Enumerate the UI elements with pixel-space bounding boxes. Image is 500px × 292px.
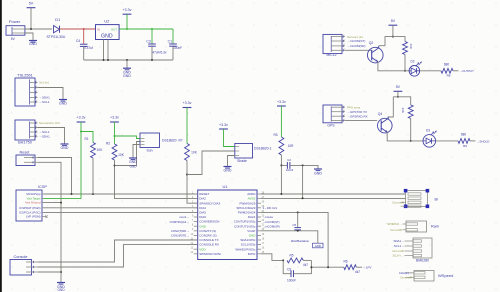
wire U1 bottom pin to R5 bbox=[261, 254, 283, 261]
wire C4 top stem (red) bbox=[83, 29, 85, 44]
wire C1 bottom bbox=[172, 46, 174, 60]
pin 4 TSL2561 bbox=[30, 97, 38, 99]
connector BME280 bbox=[413, 238, 432, 258]
junction rail d bbox=[151, 59, 153, 61]
junction R5C9 out bbox=[310, 266, 312, 268]
svg-text:Power: Power bbox=[9, 19, 21, 24]
pin 4 GPS bbox=[331, 120, 345, 122]
svg-text:MCLR/Vpp: MCLR/Vpp bbox=[26, 192, 41, 196]
pin right 20 U1 VCAP bbox=[257, 230, 261, 232]
junction 3.3v flag bbox=[126, 28, 128, 30]
pin right 24 U1 PWM2/GA24 bbox=[257, 211, 261, 213]
connector MIC12 bbox=[323, 34, 342, 53]
svg-text:ICSP: ICSP bbox=[38, 185, 47, 189]
wire R1 bottom to MCLR bbox=[92, 158, 94, 194]
wire ICSPDAT to U1 bbox=[44, 207, 198, 209]
capacitor C2 100nf bbox=[286, 162, 288, 169]
svg-text:→SCL1: →SCL1 bbox=[39, 100, 50, 104]
pin right 27 U1 AVSS bbox=[257, 198, 261, 200]
wire +3.3v to R7 bbox=[186, 108, 188, 144]
svg-text:PWM2/GA24: PWM2/GA24 bbox=[238, 211, 256, 215]
LED D3 bbox=[423, 135, 436, 148]
svg-text:GND: GND bbox=[129, 160, 137, 164]
svg-text:→InCOM(SP): →InCOM(SP) bbox=[263, 224, 280, 228]
svg-text:C5: C5 bbox=[292, 223, 296, 227]
pin 3 MIC12 bbox=[331, 45, 345, 47]
svg-text:4k7: 4k7 bbox=[303, 263, 308, 267]
svg-text:3→DIF C2x: 3→DIF C2x bbox=[263, 206, 278, 210]
svg-text:Vss Ground: Vss Ground bbox=[25, 201, 41, 205]
junction sun data bbox=[114, 165, 116, 167]
pin right 25 U1 SPICLK/DA23 bbox=[257, 207, 261, 209]
wire Sun gnd pin bbox=[133, 145, 140, 158]
junction rail a bbox=[103, 59, 105, 61]
junction rail b bbox=[107, 59, 109, 61]
svg-text:BME280: BME280 bbox=[416, 259, 429, 263]
svg-text:→GPSRXD RX: →GPSRXD RX bbox=[347, 114, 368, 118]
svg-text:Q2: Q2 bbox=[369, 41, 374, 45]
ground AVDD filter bbox=[317, 168, 319, 169]
svg-text:SPIMISO/ DIA3: SPIMISO/ DIA3 bbox=[199, 201, 220, 205]
pin right 19 U1 GND bbox=[257, 234, 261, 236]
pin 2 TSL2561 bbox=[30, 87, 38, 89]
svg-text:→SDA1: →SDA1 bbox=[39, 135, 50, 139]
pin 5 ICSP ICSPCLK (PGC) bbox=[42, 211, 44, 213]
pin right 26 U1 PWM/GA26 bbox=[257, 202, 261, 204]
svg-text:C3: C3 bbox=[146, 39, 150, 43]
svg-text:DS18B20: DS18B20 bbox=[162, 139, 177, 143]
svg-text:4k7: 4k7 bbox=[355, 270, 360, 274]
wire C9 left branch bbox=[283, 260, 290, 273]
svg-text:DIA4: DIA4 bbox=[199, 206, 206, 210]
junction vss/reset2 bbox=[60, 202, 62, 204]
pin left 6 U1 DIA6 bbox=[194, 216, 198, 218]
svg-text:→InCOM(ST): →InCOM(ST) bbox=[347, 39, 365, 43]
svg-text:R5: R5 bbox=[289, 253, 293, 257]
svg-text:D1: D1 bbox=[55, 17, 61, 22]
svg-text:DO5c: DO5c bbox=[248, 252, 256, 256]
svg-text:D3: D3 bbox=[426, 128, 430, 132]
svg-text:10K: 10K bbox=[118, 153, 125, 157]
connector BH1750 bbox=[15, 120, 35, 140]
svg-text:→GPSTXD TX: →GPSTXD TX bbox=[347, 110, 367, 114]
wire R 43K bottom bbox=[404, 55, 406, 71]
svg-text:CONSOLE RX: CONSOLE RX bbox=[199, 243, 219, 247]
svg-text:R2: R2 bbox=[106, 142, 110, 146]
svg-text:Sensors (in): Sensors (in) bbox=[347, 35, 363, 39]
svg-text:R6: R6 bbox=[343, 259, 347, 263]
power flag +3.3v (R3) bbox=[277, 105, 286, 107]
svg-text:ICSPDAT (PGD): ICSPDAT (PGD) bbox=[19, 206, 40, 210]
connector Power bbox=[6, 26, 25, 36]
svg-text:DIA5: DIA5 bbox=[199, 211, 206, 215]
wire Shade data bbox=[187, 151, 235, 175]
svg-text:SPICLK/DA23: SPICLK/DA23 bbox=[236, 206, 255, 210]
svg-text:→SDA1: →SDA1 bbox=[39, 96, 50, 100]
wire console tx bbox=[38, 240, 198, 262]
wire 5V to collector and R bbox=[385, 37, 405, 46]
pin 3 GPS bbox=[331, 115, 345, 117]
resistor R3 10R bbox=[279, 137, 284, 155]
svg-text:CONTUR1/IO5c: CONTUR1/IO5c bbox=[234, 220, 256, 224]
wire GPS pin4 to Q4 base bbox=[345, 120, 377, 122]
ground TSL2561 bbox=[62, 99, 64, 100]
svg-text:count→: count→ bbox=[179, 215, 189, 219]
pin left 9 U1 CON2TX (S) bbox=[194, 230, 198, 232]
wire to R1 top bbox=[81, 132, 93, 143]
resistor 680 (circuit2) bbox=[458, 139, 470, 144]
svg-text:GND: GND bbox=[199, 224, 207, 228]
svg-text:R3: R3 bbox=[273, 133, 277, 137]
junction R1 tap green bbox=[80, 131, 82, 133]
left border strip bbox=[0, 0, 2, 292]
svg-text:+3.3v: +3.3v bbox=[183, 101, 192, 105]
junction reset connector on MCLR bbox=[71, 193, 73, 195]
pin 1 TSL2561 bbox=[30, 82, 38, 84]
resistor R2 10K bbox=[112, 144, 117, 160]
svg-text:100nf: 100nf bbox=[286, 168, 294, 172]
svg-text:R9: R9 bbox=[463, 144, 467, 148]
pin left 13 U1 VDD bbox=[194, 248, 198, 250]
svg-text:+3.3v: +3.3v bbox=[123, 8, 132, 12]
pads Br (blue squares) bbox=[404, 189, 408, 193]
resistor R7 10K bbox=[185, 144, 190, 161]
wire to C2 bbox=[281, 164, 287, 166]
svg-text:GND: GND bbox=[123, 74, 131, 78]
svg-text:DA21: DA21 bbox=[248, 215, 256, 219]
pin 1 MIC12 bbox=[331, 36, 345, 38]
wire MIC pin4 to Q2 base bbox=[345, 49, 372, 51]
svg-text:5V: 5V bbox=[391, 19, 396, 23]
svg-text:SPIMOSI/ DO5c: SPIMOSI/ DO5c bbox=[199, 252, 221, 256]
svg-text:Console: Console bbox=[14, 255, 28, 259]
svg-text:MIC12: MIC12 bbox=[327, 53, 337, 57]
pin 6 ICSP LVP (PGM) bbox=[42, 216, 44, 218]
svg-text:CON2(R)TE→: CON2(R)TE→ bbox=[171, 234, 189, 238]
wire R5 right bbox=[303, 259, 311, 261]
pin 4 ICSP ICSPDAT (PGD) bbox=[42, 207, 44, 209]
pin right 28 U1 AVDD bbox=[257, 193, 261, 195]
pin left 4 U1 DIA4 bbox=[194, 207, 198, 209]
svg-text:COMTR/QA4→: COMTR/QA4→ bbox=[170, 220, 190, 224]
svg-text:GND: GND bbox=[29, 42, 37, 46]
junction console gnd bbox=[60, 271, 62, 273]
svg-text:IN: IN bbox=[97, 28, 100, 32]
wire BH1750 gnd pin bbox=[38, 128, 65, 144]
resistor R6 4k7 bbox=[344, 265, 357, 270]
svg-text:43K: 43K bbox=[409, 44, 413, 49]
svg-text:BH1750: BH1750 bbox=[18, 141, 32, 145]
wire C4 bottom to gnd rail bbox=[83, 46, 85, 60]
junction sun vcc tap bbox=[114, 135, 116, 137]
junction R5/C9 left bbox=[282, 259, 284, 261]
svg-text:C9: C9 bbox=[287, 267, 291, 271]
wire 5V stem bbox=[30, 8, 32, 29]
svg-text:→OUTPUT: →OUTPUT bbox=[460, 69, 475, 73]
svg-text:+3.3v: +3.3v bbox=[277, 100, 286, 104]
sensor DS18B20-1 Shade bbox=[235, 144, 253, 159]
svg-text:GroundR: GroundR bbox=[392, 249, 404, 253]
capacitor C1 100nF bbox=[169, 43, 177, 45]
svg-text:TSL2561: TSL2561 bbox=[17, 74, 32, 78]
pin 2 BH1750 bbox=[30, 127, 38, 129]
pin left 12 U1 CONSOLE RX bbox=[194, 244, 198, 246]
junction R1 on MCLR bbox=[92, 193, 94, 195]
wire +3.3v vertical to Vdd bbox=[80, 122, 82, 199]
svg-text:100nF: 100nF bbox=[287, 278, 296, 282]
power flag 5V bbox=[27, 7, 36, 9]
svg-text:10R: 10R bbox=[288, 144, 295, 148]
wire ground rail bbox=[84, 59, 173, 61]
wire TSL2561 gnd pin bbox=[38, 88, 64, 99]
svg-text:CON2(T)RD→: CON2(T)RD→ bbox=[171, 229, 189, 233]
wire R680 out c2 bbox=[470, 140, 476, 142]
pin 1 ICSP MCLR/Vpp bbox=[42, 193, 44, 195]
wire collector link bbox=[379, 45, 385, 47]
wire 3.3v to Shade bbox=[224, 129, 235, 147]
pin right 18 U1 SDA1/IO5c bbox=[257, 239, 261, 241]
svg-text:CONSOLE TX: CONSOLE TX bbox=[199, 238, 218, 242]
svg-text:RESET: RESET bbox=[199, 192, 209, 196]
pin 4 BH1750 bbox=[30, 135, 38, 137]
resistor R1 10K bbox=[91, 143, 96, 159]
svg-text:SCL1/IO5c: SCL1/IO5c bbox=[241, 243, 256, 247]
wire Reset pin2 / ground vertical bbox=[38, 162, 61, 281]
wire D2 to R680 bbox=[420, 70, 441, 72]
svg-text:VDD: VDD bbox=[199, 247, 206, 251]
connector Br bbox=[406, 191, 428, 207]
wire R7 bottom to U1 row3 bbox=[187, 161, 198, 204]
svg-text:AVSS: AVSS bbox=[248, 197, 256, 201]
wire 5V stem c1 bbox=[392, 25, 394, 36]
wire Reset pin1 to MCLR net bbox=[38, 158, 72, 195]
svg-text:+3.3v: +3.3v bbox=[77, 116, 86, 120]
svg-text:Q4: Q4 bbox=[378, 112, 383, 116]
svg-text:→Insure: →Insure bbox=[263, 215, 274, 219]
pin left 2 U1 DIA2 bbox=[194, 198, 198, 200]
capacitor C3 47uF bbox=[148, 43, 156, 45]
wire PWM2 frame down bbox=[261, 212, 328, 267]
wire Sun data to R2 net bbox=[115, 142, 141, 166]
svg-text:OUT: OUT bbox=[111, 28, 117, 32]
wire console gnd bbox=[38, 271, 61, 273]
MCU U1 bbox=[198, 190, 257, 260]
svg-text:+3.3v: +3.3v bbox=[110, 116, 119, 120]
pin left 5 U1 DIA5 bbox=[194, 211, 198, 213]
connector TSL2561 bbox=[15, 78, 35, 106]
svg-text:GroundR: GroundR bbox=[400, 275, 412, 279]
junction shade data bbox=[186, 174, 188, 176]
svg-text:C2: C2 bbox=[287, 158, 291, 162]
wire 5V branch c2 bbox=[393, 97, 410, 105]
ground BH1750 bbox=[64, 143, 66, 144]
svg-text:GND: GND bbox=[249, 234, 257, 238]
svg-text:LVP (PGM): LVP (PGM) bbox=[26, 215, 41, 219]
wire R43K bottom c2 bbox=[410, 119, 412, 141]
svg-text:Sensorwire 3v3: Sensorwire 3v3 bbox=[39, 121, 60, 125]
power flag +3.3v (R2) bbox=[110, 121, 119, 123]
junction emitter node c2 bbox=[410, 140, 412, 142]
resistor 680 (circuit1) bbox=[441, 68, 453, 73]
resistor R5 4k7 bbox=[287, 258, 303, 263]
regulator U2 bbox=[96, 25, 120, 40]
ground under Power bbox=[32, 40, 34, 41]
pin 1 Console bbox=[26, 261, 38, 263]
power flag +3.3v (Shade) bbox=[219, 128, 228, 130]
svg-text:GND: GND bbox=[315, 244, 321, 248]
svg-text:R7: R7 bbox=[178, 138, 182, 142]
junction R3/AVDD bbox=[280, 193, 282, 195]
svg-text:GroundR: GroundR bbox=[390, 228, 402, 232]
LED D2 bbox=[409, 66, 420, 77]
ground bottom (Vss) bbox=[60, 282, 62, 283]
wire Q2 emitter down bbox=[378, 62, 409, 71]
wire 5V net D1 to U2 (red) bbox=[60, 28, 96, 30]
power flag +3.3v (regulator output) bbox=[123, 13, 132, 15]
wire console rx bbox=[38, 245, 198, 267]
svg-text:CON2TX (S): CON2TX (S) bbox=[199, 229, 216, 233]
wire 3.3v to R3 bbox=[280, 106, 282, 137]
junction C4 tap (red) bbox=[83, 28, 85, 30]
svg-text:4RefBattalion: 4RefBattalion bbox=[291, 239, 310, 243]
svg-text:GND: GND bbox=[59, 101, 67, 105]
svg-text:SPIMISO→: SPIMISO→ bbox=[387, 222, 402, 226]
svg-text:Shade: Shade bbox=[237, 159, 247, 163]
resistor 43K (circuit2) bbox=[408, 105, 413, 119]
svg-text:GND: GND bbox=[61, 146, 69, 150]
svg-text:Ram: Ram bbox=[431, 224, 439, 228]
pin 1 BH1750 bbox=[30, 122, 38, 124]
svg-text:5V: 5V bbox=[29, 2, 34, 6]
svg-text:SCL1→: SCL1→ bbox=[394, 244, 404, 248]
svg-text:→InCOM(SP): →InCOM(SP) bbox=[347, 44, 366, 48]
wire Q4 emitter bbox=[387, 132, 423, 141]
svg-text:WAKEUP/IO5c: WAKEUP/IO5c bbox=[235, 247, 256, 251]
pin 3 ICSP Vss Ground bbox=[42, 202, 44, 204]
svg-text:VCAP: VCAP bbox=[247, 229, 255, 233]
svg-text:CON2RX (S): CON2RX (S) bbox=[199, 234, 216, 238]
wire C9 right branch bbox=[294, 260, 312, 273]
wire AVSS to Br pin2 bbox=[261, 198, 406, 200]
wire 3.3v to Sun sensor bbox=[115, 136, 141, 139]
ground Shade sensor bbox=[227, 166, 229, 167]
diode D1 STPS1L30U bbox=[54, 26, 60, 33]
svg-text:GND: GND bbox=[57, 288, 65, 292]
svg-text:CHA(in)→: CHA(in)→ bbox=[399, 271, 412, 275]
wire Shade gnd pin bbox=[228, 156, 235, 166]
pin right 22 U1 CONTUR1/IO5c bbox=[257, 221, 261, 223]
pin 1 GPS bbox=[331, 106, 345, 108]
pin 3 BH1750 bbox=[30, 131, 38, 133]
wire 3.3V output net (green) bbox=[119, 28, 173, 30]
pin left 1 U1 RESET bbox=[194, 193, 198, 195]
wire to R6 bbox=[311, 266, 343, 268]
svg-text:3(L)V+→: 3(L)V+→ bbox=[392, 254, 404, 258]
pin left 10 U1 CON2RX (S) bbox=[194, 234, 198, 236]
svg-text:D2: D2 bbox=[410, 59, 414, 63]
wire C3 top stem bbox=[151, 29, 153, 44]
svg-text:AVDD: AVDD bbox=[247, 192, 256, 196]
wire R680 out bbox=[453, 70, 459, 72]
wire Power to D1 bbox=[25, 28, 52, 30]
wire MCLR net to U1 RESET bbox=[44, 193, 198, 195]
wire R3 bottom to AVDD bbox=[280, 155, 282, 194]
wire U2 gnd pin b bbox=[107, 40, 109, 61]
wire D3 to R680 c2 bbox=[436, 140, 458, 142]
wire +3.3v to R2 bbox=[114, 122, 116, 144]
svg-text:GND: GND bbox=[314, 172, 322, 176]
pin 1 Reset bbox=[24, 157, 38, 159]
svg-text:→SHOLD: →SHOLD bbox=[477, 139, 490, 143]
power flag 5V (circuit1) bbox=[389, 24, 398, 26]
pin left 7 U1 CONVERSION bbox=[194, 221, 198, 223]
wire to Q4 collector bbox=[388, 97, 393, 119]
svg-text:5V: 5V bbox=[396, 85, 401, 89]
resistor 43K (circuit1) bbox=[403, 42, 408, 55]
svg-text:43K: 43K bbox=[401, 108, 405, 113]
junction AVSS branch bbox=[302, 164, 304, 166]
wire AVDD to Br pin1 bbox=[261, 193, 406, 195]
pin left 8 U1 GND bbox=[194, 225, 198, 227]
svg-text:→1PV: →1PV bbox=[363, 266, 372, 270]
wire C5 bottom bbox=[297, 229, 299, 232]
ground Sun sensor bbox=[132, 157, 134, 158]
svg-text:680: 680 bbox=[461, 132, 467, 136]
pin 4 MIC12 bbox=[331, 49, 345, 51]
transistor Q4 bbox=[378, 118, 393, 133]
wire U2 gnd pin a bbox=[103, 40, 105, 61]
pin 2 GPS bbox=[331, 111, 345, 113]
wire +3.3v stem bbox=[126, 14, 128, 29]
pin left 3 U1 SPIMISO/ DIA3 bbox=[194, 202, 198, 204]
wire 5V stem c2 bbox=[397, 91, 399, 97]
svg-text:GPS: GPS bbox=[327, 124, 335, 128]
power flag +3.3v (R7) bbox=[183, 107, 192, 109]
svg-text:C4: C4 bbox=[76, 39, 80, 43]
pin left 14 U1 SPIMOSI/ DO5c bbox=[194, 253, 198, 255]
svg-text:WSpeed: WSpeed bbox=[438, 273, 453, 278]
pin 2 Reset bbox=[24, 161, 38, 163]
junction rail c bbox=[126, 59, 128, 61]
connector GPS bbox=[323, 105, 342, 123]
svg-text:CONVERSION: CONVERSION bbox=[199, 220, 219, 224]
junction AVSS gnd branch bbox=[302, 197, 304, 199]
svg-text:R1: R1 bbox=[84, 137, 88, 141]
svg-text:0.47uf: 0.47uf bbox=[84, 46, 93, 50]
svg-text:680: 680 bbox=[444, 62, 450, 66]
junction 5V node bbox=[30, 28, 32, 30]
connector ICSP bbox=[16, 190, 42, 221]
pin right 17 U1 SCL1/IO5c bbox=[257, 244, 261, 246]
junction C5 on VCAP net bbox=[297, 230, 299, 232]
svg-text:GND: GND bbox=[101, 33, 113, 39]
wire C3 bottom bbox=[151, 46, 153, 60]
svg-text:10K: 10K bbox=[97, 148, 104, 152]
svg-text:U2: U2 bbox=[104, 19, 110, 24]
junction C5 tap bbox=[297, 211, 299, 213]
pin left 11 U1 CONSOLE TX bbox=[194, 239, 198, 241]
pin 3 TSL2561 bbox=[30, 92, 38, 94]
wire C2 to ground bbox=[290, 165, 318, 168]
junction C3 tap bbox=[151, 28, 153, 30]
wire R6 out bbox=[356, 266, 362, 268]
pin 5 TSL2561 bbox=[30, 101, 38, 103]
capacitor C5 bbox=[294, 227, 301, 229]
svg-text:DIA6: DIA6 bbox=[199, 215, 206, 219]
svg-text:PPS sens: PPS sens bbox=[347, 105, 361, 109]
svg-text:10K: 10K bbox=[191, 151, 198, 155]
svg-text:3v3 (in): 3v3 (in) bbox=[39, 81, 49, 85]
